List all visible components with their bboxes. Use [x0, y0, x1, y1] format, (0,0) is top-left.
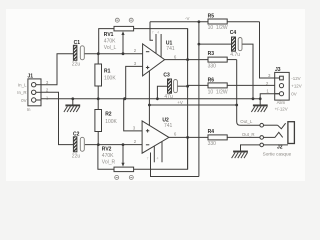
svg-text:Alim: Alim [277, 100, 286, 105]
svg-text:-V: -V [185, 16, 189, 21]
node ground rail at C4 drop [252, 97, 255, 100]
test point marker right below RV2 [129, 175, 133, 179]
node L input at R1 top [97, 52, 100, 55]
RV2 labels [102, 147, 116, 166]
C3 labels [163, 73, 173, 101]
U2 power pins [154, 142, 162, 163]
svg-text:In: In [27, 107, 31, 112]
wire C2 to U2 pin2 [85, 144, 142, 146]
op-amp U2 [142, 121, 169, 153]
svg-text:4: 4 [157, 31, 159, 35]
node ground rail at R1/R2 [97, 97, 100, 100]
svg-text:J3: J3 [275, 67, 281, 73]
node C4 on -V column [198, 43, 201, 46]
U1 power pin V+ down to +V wire [148, 71, 150, 126]
svg-text:4.7u: 4.7u [230, 52, 240, 58]
R5 labels [208, 13, 228, 31]
svg-text:In_L: In_L [18, 83, 27, 88]
svg-text:22u: 22u [72, 62, 81, 68]
svg-text:0V: 0V [291, 91, 296, 96]
svg-text:470K: 470K [102, 153, 114, 159]
resistor R3 [208, 57, 237, 62]
connector J1 [28, 79, 41, 106]
svg-text:47u: 47u [164, 94, 173, 100]
wire -V to J3 pin3 [260, 22, 275, 78]
op-amp U1 [143, 44, 165, 76]
wire -V bottom rail [151, 153, 199, 177]
wire ground rail 0V [41, 98, 260, 100]
svg-text:Sortie casque: Sortie casque [263, 151, 292, 156]
svg-text:Vol_L: Vol_L [104, 45, 117, 51]
U2 power pin numbers [147, 157, 159, 161]
C4 labels [230, 30, 240, 58]
wire jack sleeve to ground [241, 145, 260, 151]
wire C1 to U1 pin2 [85, 53, 143, 55]
wire R3 down to jack Out_L [237, 60, 260, 126]
svg-text:330: 330 [208, 141, 217, 147]
U1 power pin V- from top rail [150, 22, 161, 57]
jack J2 [260, 122, 294, 147]
wire RV1 feedback rail to U1 output [134, 29, 188, 60]
svg-text:10 1/2W: 10 1/2W [208, 25, 228, 31]
node +V at U1 pin [148, 104, 151, 107]
svg-text:R2: R2 [105, 111, 112, 117]
wire J1 pin3 to C1 [41, 54, 73, 85]
node U1 output [186, 58, 189, 61]
wire -V column [198, 22, 200, 177]
U1 labels [134, 40, 177, 66]
J1 labels [17, 74, 49, 112]
node RV2 wiper on U2 pin2 wire [122, 143, 125, 146]
test point marker left above RV1 [115, 18, 119, 22]
wire U2 output to R4 [169, 136, 208, 138]
J2 labels [240, 119, 291, 156]
svg-text:741: 741 [166, 46, 175, 52]
U1 power pin numbers [152, 31, 160, 35]
U2 pin 3 wire to ground [124, 99, 142, 131]
ground at jack [232, 152, 248, 159]
svg-text:741: 741 [164, 123, 173, 129]
svg-text:0V: 0V [21, 98, 26, 103]
R2 labels [105, 111, 117, 124]
node ground rail at input ground [71, 97, 74, 100]
svg-text:In_R: In_R [17, 90, 26, 95]
svg-text:100K: 100K [104, 76, 116, 82]
resistor R2 [95, 99, 102, 145]
svg-text:7: 7 [147, 157, 149, 161]
node R input at R2 bottom [97, 143, 100, 146]
wire RV2 feedback rail to U2 output [134, 137, 188, 169]
svg-text:22u: 22u [72, 154, 81, 160]
J3 labels [266, 67, 302, 112]
R3 labels [208, 51, 217, 69]
node -V rail at column [198, 20, 201, 23]
resistor R1 [95, 54, 102, 99]
svg-text:10 1/2W: 10 1/2W [208, 89, 228, 95]
svg-text:Vol_R: Vol_R [102, 159, 116, 165]
U1 pin 3 wire to ground [126, 66, 143, 98]
node C3/R6 on center column [186, 85, 189, 88]
R4 labels [208, 129, 217, 147]
node +V at R3 drop [235, 104, 238, 107]
svg-text:+V: +V [177, 100, 183, 105]
svg-text:C4: C4 [230, 30, 237, 36]
connector J3 [275, 72, 290, 100]
svg-text:J1: J1 [28, 74, 34, 80]
svg-text:+/-12V: +/-12V [275, 107, 288, 112]
node ground rail at U1/U2 pin3 [123, 97, 126, 100]
svg-text:R3: R3 [208, 51, 215, 57]
svg-text:RV1: RV1 [104, 32, 114, 38]
wire +V column [187, 29, 189, 170]
svg-text:R4: R4 [208, 129, 215, 135]
node ground rail at J3 pin1 [259, 97, 262, 100]
node RV1 wiper on U1 pin2 wire [122, 52, 125, 55]
capacitor C3 [157, 79, 187, 99]
svg-text:4: 4 [157, 157, 159, 161]
svg-text:RV2: RV2 [102, 147, 112, 153]
test point marker left below RV2 [115, 175, 119, 179]
wire J1 pin2 to C2 [41, 92, 73, 144]
resistor R4 [208, 135, 260, 140]
svg-text:J2: J2 [277, 145, 283, 151]
ground at input [64, 99, 80, 112]
wire J3 pin1 to ground [260, 94, 279, 105]
node ground rail at C3 [156, 97, 159, 100]
wire U1 output to R3 [165, 59, 208, 61]
node U2 output [186, 136, 189, 139]
C1 labels [72, 40, 81, 67]
svg-text:R6: R6 [208, 77, 215, 83]
svg-text:-12V: -12V [291, 76, 300, 81]
capacitor C2 [73, 137, 84, 152]
svg-text:C1: C1 [74, 40, 81, 46]
svg-text:7: 7 [152, 31, 154, 35]
wire +V rail [149, 104, 236, 106]
resistor R5 [208, 19, 227, 24]
test point marker right above RV1 [129, 18, 133, 22]
U2 labels [133, 117, 177, 144]
potentiometer RV2 [98, 145, 134, 172]
svg-text:Out_R: Out_R [242, 132, 255, 137]
svg-text:Out_L: Out_L [240, 119, 253, 124]
wire -V top rail [150, 21, 260, 23]
capacitor C4 [199, 37, 253, 99]
C2 labels [72, 131, 81, 159]
svg-text:+12V: +12V [291, 84, 301, 89]
svg-text:330: 330 [208, 63, 217, 69]
RV1 labels [104, 32, 117, 51]
resistor R6 [188, 83, 275, 88]
potentiometer RV1 [99, 26, 134, 53]
svg-text:C2: C2 [73, 131, 80, 137]
svg-text:R5: R5 [208, 13, 215, 19]
svg-text:100K: 100K [105, 119, 117, 125]
svg-text:470K: 470K [104, 39, 116, 45]
R1 labels [104, 68, 116, 81]
ground at J3 [251, 105, 267, 112]
svg-text:C3: C3 [163, 73, 170, 79]
svg-text:R1: R1 [104, 68, 111, 74]
R6 labels [208, 77, 228, 95]
capacitor C1 [73, 45, 84, 60]
